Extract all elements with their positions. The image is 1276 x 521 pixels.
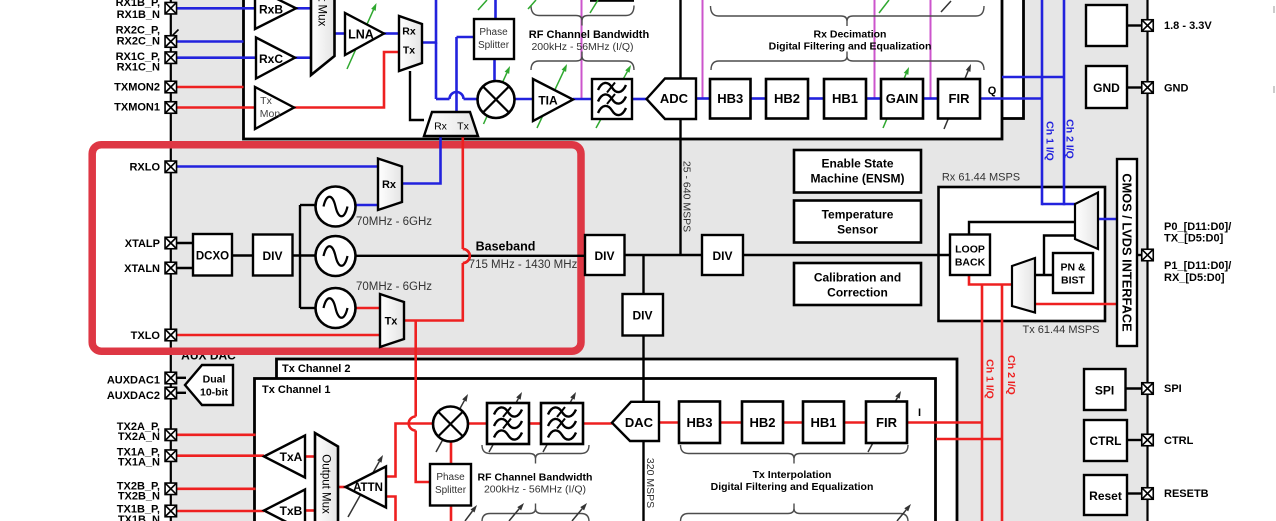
svg-text:200kHz - 56MHz (I/Q): 200kHz - 56MHz (I/Q) bbox=[531, 41, 633, 53]
svg-text:TIA: TIA bbox=[538, 93, 558, 107]
svg-text:RX2C_N: RX2C_N bbox=[117, 35, 160, 47]
svg-text:Input Mux: Input Mux bbox=[315, 0, 327, 26]
svg-text:Output Mux: Output Mux bbox=[319, 454, 331, 514]
svg-text:RX_[D5:D0]: RX_[D5:D0] bbox=[1164, 272, 1225, 284]
svg-text:I: I bbox=[918, 407, 921, 419]
svg-text:Rx: Rx bbox=[434, 120, 448, 132]
svg-text:HB1: HB1 bbox=[810, 415, 836, 430]
svg-text:FIR: FIR bbox=[949, 91, 971, 106]
svg-text:Machine (ENSM): Machine (ENSM) bbox=[810, 171, 904, 185]
svg-text:Digital Filtering and Equaliza: Digital Filtering and Equalization bbox=[769, 40, 932, 52]
svg-text:25 - 640 MSPS: 25 - 640 MSPS bbox=[681, 161, 693, 232]
svg-text:Tx: Tx bbox=[403, 44, 415, 56]
svg-text:200kHz - 56MHz (I/Q): 200kHz - 56MHz (I/Q) bbox=[484, 483, 586, 495]
svg-text:RXLO: RXLO bbox=[129, 162, 160, 174]
svg-text:Ch 1 I/Q: Ch 1 I/Q bbox=[1044, 121, 1056, 161]
svg-text:VDD GPO: VDD GPO bbox=[1083, 0, 1129, 3]
svg-text:RxB: RxB bbox=[259, 2, 283, 16]
svg-text:RX1B_P,: RX1B_P, bbox=[116, 0, 160, 9]
svg-text:Baseband: Baseband bbox=[476, 240, 536, 254]
svg-text:TX1B_N: TX1B_N bbox=[118, 514, 160, 521]
svg-text:RX1B_N: RX1B_N bbox=[117, 9, 160, 21]
svg-text:HB3: HB3 bbox=[717, 91, 743, 106]
svg-text:Rx Decimation: Rx Decimation bbox=[814, 28, 887, 40]
svg-text:Ch 2 I/Q: Ch 2 I/Q bbox=[1005, 355, 1017, 395]
svg-text:BACK: BACK bbox=[955, 256, 986, 268]
svg-text:ADC: ADC bbox=[660, 91, 689, 106]
svg-text:XTALN: XTALN bbox=[124, 263, 160, 275]
svg-text:Rx 61.44 MSPS: Rx 61.44 MSPS bbox=[942, 172, 1020, 184]
svg-text:GAIN: GAIN bbox=[886, 91, 919, 106]
svg-text:HB2: HB2 bbox=[749, 415, 775, 430]
svg-text:DAC: DAC bbox=[625, 415, 654, 430]
svg-text:BIST: BIST bbox=[1061, 274, 1086, 286]
svg-text:Correction: Correction bbox=[827, 285, 888, 299]
svg-text:P1_[D11:D0]/: P1_[D11:D0]/ bbox=[1164, 260, 1231, 272]
svg-text:Splitter: Splitter bbox=[478, 40, 510, 51]
svg-text:Phase: Phase bbox=[479, 27, 508, 38]
svg-text:TX2A_N: TX2A_N bbox=[118, 431, 160, 443]
svg-text:Tx 61.44 MSPS: Tx 61.44 MSPS bbox=[1022, 324, 1099, 336]
svg-text:AUXDAC1: AUXDAC1 bbox=[107, 375, 160, 387]
svg-text:Splitter: Splitter bbox=[435, 485, 467, 496]
svg-text:HB2: HB2 bbox=[774, 91, 800, 106]
svg-text:XTALP: XTALP bbox=[125, 238, 160, 250]
svg-text:LOOP: LOOP bbox=[955, 243, 985, 255]
svg-text:Ch 1 I/Q: Ch 1 I/Q bbox=[984, 359, 996, 399]
svg-text:TX1A_N: TX1A_N bbox=[118, 457, 160, 469]
svg-text:FIR: FIR bbox=[876, 415, 898, 430]
svg-text:CTRL: CTRL bbox=[1090, 434, 1122, 448]
svg-text:DIV: DIV bbox=[262, 249, 282, 263]
svg-text:RX1C_N: RX1C_N bbox=[117, 62, 160, 74]
svg-text:PN &: PN & bbox=[1060, 261, 1086, 273]
svg-text:Sensor: Sensor bbox=[837, 222, 878, 236]
svg-text:Reset: Reset bbox=[1089, 489, 1122, 503]
svg-text:Tx: Tx bbox=[385, 316, 399, 328]
svg-text:TX2B_N: TX2B_N bbox=[118, 491, 160, 503]
svg-text:320 MSPS: 320 MSPS bbox=[644, 458, 656, 508]
svg-text:Mon: Mon bbox=[260, 108, 281, 120]
svg-text:Tx Channel 1: Tx Channel 1 bbox=[262, 384, 330, 396]
svg-text:Ch 2 I/Q: Ch 2 I/Q bbox=[1064, 119, 1076, 159]
svg-text:P0_[D11:D0]/: P0_[D11:D0]/ bbox=[1164, 221, 1231, 233]
svg-text:SPI: SPI bbox=[1095, 383, 1114, 397]
svg-text:Rx: Rx bbox=[382, 179, 397, 191]
svg-text:Calibration and: Calibration and bbox=[814, 270, 901, 284]
svg-text:Dual: Dual bbox=[203, 373, 226, 385]
svg-text:TX_[D5:D0]: TX_[D5:D0] bbox=[1164, 233, 1224, 245]
svg-text:GND: GND bbox=[1164, 83, 1189, 95]
svg-text:Tx Interpolation: Tx Interpolation bbox=[753, 469, 832, 481]
svg-text:DCXO: DCXO bbox=[196, 251, 229, 263]
svg-text:Rx: Rx bbox=[402, 25, 416, 37]
svg-text:Enable State: Enable State bbox=[821, 156, 893, 170]
svg-text:DIV: DIV bbox=[632, 308, 652, 322]
svg-text:HB3: HB3 bbox=[686, 415, 712, 430]
svg-text:CTRL: CTRL bbox=[1164, 435, 1194, 447]
svg-text:RF Channel Bandwidth: RF Channel Bandwidth bbox=[529, 29, 650, 41]
svg-text:TXMON2: TXMON2 bbox=[114, 82, 160, 94]
svg-text:RESETB: RESETB bbox=[1164, 488, 1209, 500]
svg-text:Temperature: Temperature bbox=[822, 207, 894, 221]
svg-text:10-bit: 10-bit bbox=[200, 386, 229, 398]
svg-text:SPI: SPI bbox=[1164, 383, 1182, 395]
svg-text:Digital Filtering and Equaliza: Digital Filtering and Equalization bbox=[711, 481, 874, 493]
svg-text:ATTN: ATTN bbox=[353, 482, 383, 494]
svg-text:Q: Q bbox=[988, 85, 997, 97]
svg-text:70MHz - 6GHz: 70MHz - 6GHz bbox=[356, 281, 432, 293]
svg-text:HB1: HB1 bbox=[832, 91, 858, 106]
svg-text:DIV: DIV bbox=[712, 249, 732, 263]
svg-text:LNA: LNA bbox=[348, 28, 374, 42]
svg-text:70MHz - 6GHz: 70MHz - 6GHz bbox=[356, 216, 432, 228]
svg-text:CMOS / LVDS INTERFACE: CMOS / LVDS INTERFACE bbox=[1120, 173, 1135, 332]
svg-text:Tx Channel 2: Tx Channel 2 bbox=[282, 363, 350, 375]
svg-text:TXLO: TXLO bbox=[131, 330, 161, 342]
svg-text:DIV: DIV bbox=[594, 249, 614, 263]
svg-text:Phase: Phase bbox=[436, 472, 465, 483]
svg-text:Tx: Tx bbox=[457, 120, 469, 132]
svg-text:TxB: TxB bbox=[280, 504, 303, 518]
svg-text:GND: GND bbox=[1093, 81, 1120, 95]
svg-text:TXMON1: TXMON1 bbox=[114, 102, 160, 114]
svg-text:1.8 - 3.3V: 1.8 - 3.3V bbox=[1164, 20, 1212, 32]
svg-text:RxC: RxC bbox=[259, 52, 283, 66]
svg-text:Tx: Tx bbox=[260, 95, 272, 107]
svg-text:TxA: TxA bbox=[280, 450, 303, 464]
svg-text:RF Channel Bandwidth: RF Channel Bandwidth bbox=[478, 471, 593, 483]
svg-text:715 MHz - 1430 MHz: 715 MHz - 1430 MHz bbox=[469, 259, 578, 271]
svg-text:AUXDAC2: AUXDAC2 bbox=[107, 390, 160, 402]
